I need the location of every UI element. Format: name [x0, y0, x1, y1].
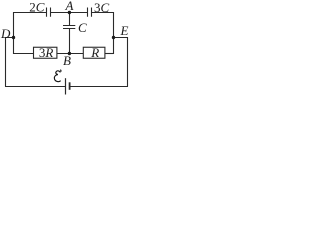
wire top-left from D corner to 2C	[13, 12, 46, 14]
wire A to capacitor C	[69, 13, 71, 26]
wire 3R to B to R	[57, 53, 84, 55]
capacitor 2C plates	[47, 8, 51, 17]
wire R to right vertical	[105, 53, 114, 55]
wire 3C to right corner	[92, 12, 114, 14]
label B	[63, 53, 71, 68]
node D junction dot	[12, 36, 15, 39]
label C	[78, 20, 87, 35]
svg-text:C: C	[78, 20, 87, 35]
wire E stub right and outer right edge	[114, 38, 128, 87]
label R	[90, 45, 99, 60]
resistor 3R box	[34, 47, 57, 58]
wire right vertical E branch	[113, 12, 115, 54]
capacitor 3C plates	[88, 8, 92, 17]
svg-text:D: D	[0, 26, 11, 41]
svg-text:A: A	[65, 0, 74, 13]
svg-text:B: B	[63, 53, 71, 68]
resistor R box	[83, 47, 105, 58]
wire battery to bottom right	[70, 86, 128, 88]
wire left vertical D branch	[13, 12, 15, 54]
label 2C	[29, 0, 45, 14]
node B junction dot	[68, 52, 71, 55]
label A	[65, 0, 74, 13]
capacitor C plates	[63, 26, 75, 29]
svg-text:3C: 3C	[94, 0, 110, 15]
wire 2C to A to 3C	[51, 12, 87, 14]
battery E long plate	[65, 78, 67, 94]
label D	[0, 26, 11, 41]
wire D stub left and outer left edge	[6, 38, 14, 87]
wire D to 3R	[13, 53, 34, 55]
label 3C	[94, 0, 110, 15]
label E	[120, 23, 129, 38]
svg-text:E: E	[120, 23, 129, 38]
battery E short plate	[69, 82, 71, 90]
node E junction dot	[112, 36, 115, 39]
label script-E emf	[54, 70, 61, 82]
svg-text:R: R	[90, 45, 99, 60]
label 3R	[39, 45, 54, 60]
wire bottom left to battery	[5, 86, 66, 88]
wire C to B	[69, 29, 71, 54]
node A junction dot	[68, 11, 71, 14]
svg-text:2C: 2C	[29, 0, 45, 14]
svg-text:3R: 3R	[39, 45, 54, 60]
